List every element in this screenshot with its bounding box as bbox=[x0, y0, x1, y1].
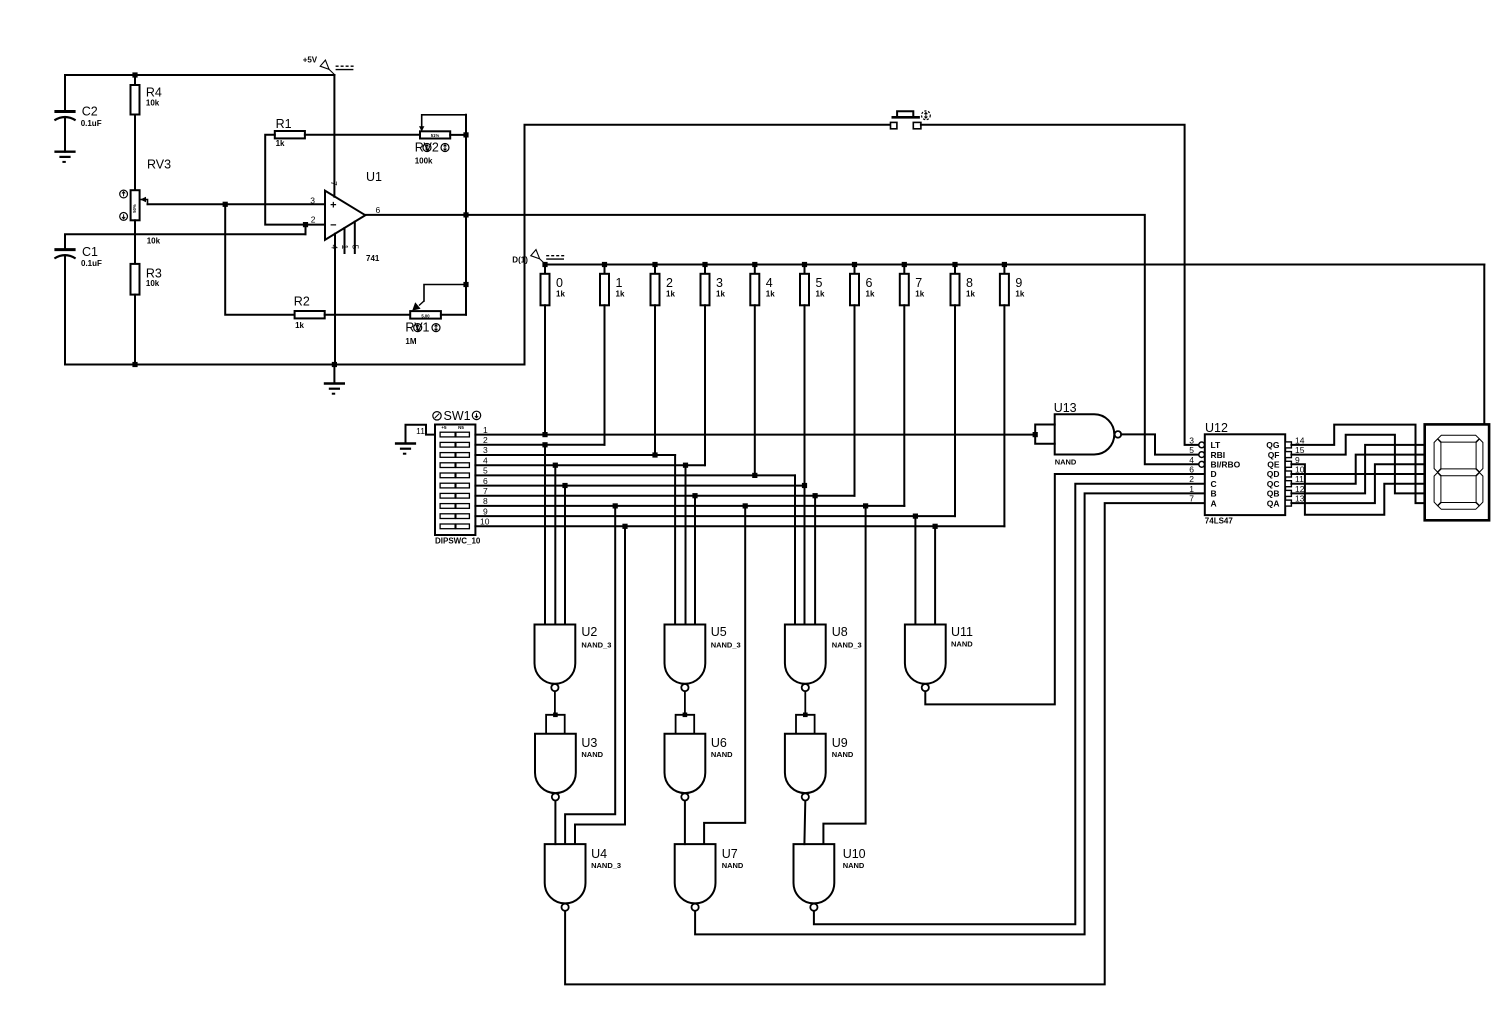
potentiometer RV3 bbox=[120, 158, 171, 246]
svg-text:1k: 1k bbox=[276, 139, 285, 148]
wire RV3 wiper to node bbox=[148, 202, 326, 207]
wire D(1) rail bbox=[542, 262, 1484, 267]
wire QD to display bbox=[1291, 473, 1424, 475]
nand gate U2 bbox=[535, 625, 612, 692]
svg-text:NAND: NAND bbox=[1055, 458, 1077, 467]
wire U6 output to U7 input a bbox=[684, 801, 686, 844]
svg-text:U12: U12 bbox=[1205, 421, 1228, 435]
svg-text:U13: U13 bbox=[1054, 401, 1077, 415]
wire button to LT bbox=[921, 125, 1198, 445]
resistor 7 (1k) bbox=[900, 265, 925, 306]
svg-text:100k: 100k bbox=[415, 156, 433, 165]
svg-text:C2: C2 bbox=[82, 105, 98, 119]
svg-text:QG: QG bbox=[1266, 440, 1280, 450]
wire line 3 to U5 input a bbox=[674, 455, 676, 625]
svg-text:A: A bbox=[1211, 498, 1217, 508]
svg-text:NAND: NAND bbox=[711, 750, 733, 759]
svg-text:U7: U7 bbox=[722, 847, 738, 861]
svg-text:RV3: RV3 bbox=[147, 158, 171, 172]
svg-text:U5: U5 bbox=[711, 625, 727, 639]
wire op-amp output to BI/RBO bbox=[365, 215, 1197, 464]
svg-text:9: 9 bbox=[1015, 276, 1022, 290]
wire resistor 8 to line 9 bbox=[954, 305, 956, 516]
resistor 8 (1k) bbox=[951, 265, 976, 306]
svg-text:2: 2 bbox=[1189, 474, 1194, 484]
svg-text:1k: 1k bbox=[1015, 290, 1024, 299]
wire U3 output to U4 input a bbox=[554, 801, 556, 844]
wire U4 output to 74LS47 A bbox=[565, 503, 1205, 984]
svg-text:2: 2 bbox=[311, 214, 316, 224]
svg-text:1k: 1k bbox=[716, 290, 725, 299]
nand gate U3 bbox=[535, 734, 604, 801]
svg-text:10: 10 bbox=[480, 517, 490, 527]
nand gate U9 bbox=[785, 734, 854, 801]
wire line 2 to U2 input a bbox=[542, 442, 547, 624]
wire resistor 6 to line 7 bbox=[854, 305, 856, 495]
svg-text:−: − bbox=[330, 220, 336, 232]
svg-text:51%: 51% bbox=[431, 133, 440, 138]
svg-text:U3: U3 bbox=[581, 736, 597, 750]
svg-text:0: 0 bbox=[556, 276, 563, 290]
wire op-amp pin 4 to ground rail bbox=[334, 234, 336, 365]
svg-text:10k: 10k bbox=[147, 237, 161, 246]
svg-text:U10: U10 bbox=[843, 847, 866, 861]
wire SW1 pin 1 line bbox=[475, 425, 1035, 435]
svg-text:BI/RBO: BI/RBO bbox=[1211, 460, 1241, 470]
wire +5V top rail bbox=[65, 72, 334, 77]
ground below op-amp bbox=[324, 365, 345, 394]
svg-text:QE: QE bbox=[1267, 460, 1280, 470]
svg-text:NAND: NAND bbox=[581, 750, 603, 759]
svg-text:NAND_3: NAND_3 bbox=[591, 861, 621, 870]
svg-text:0.1uF: 0.1uF bbox=[81, 119, 102, 128]
wire line 4 to U2 input b bbox=[553, 463, 558, 625]
op-amp pin 5 stub bbox=[354, 222, 356, 253]
svg-text:7: 7 bbox=[1189, 494, 1194, 504]
svg-text:5: 5 bbox=[816, 276, 823, 290]
capacitor C1 bbox=[54, 245, 102, 268]
wire C2 to ground bbox=[64, 118, 66, 152]
svg-text:U4: U4 bbox=[591, 847, 607, 861]
svg-text:N5: N5 bbox=[458, 425, 464, 430]
svg-text:74LS47: 74LS47 bbox=[1205, 517, 1234, 526]
svg-text:0.1uF: 0.1uF bbox=[81, 259, 102, 268]
wire U13 output to RBI bbox=[1121, 434, 1197, 454]
resistor R3 bbox=[131, 264, 162, 295]
resistor 3 (1k) bbox=[701, 265, 726, 306]
capacitor C2 bbox=[54, 105, 101, 128]
svg-text:QB: QB bbox=[1267, 489, 1280, 499]
wire RV1 right terminal node bbox=[441, 314, 466, 316]
wire U5 output to U6 bbox=[684, 692, 686, 715]
svg-text:NAND: NAND bbox=[843, 861, 865, 870]
wire line 7 to U8 input c bbox=[813, 493, 818, 624]
wire feedback vertical bbox=[463, 115, 468, 315]
svg-text:LT: LT bbox=[1211, 440, 1222, 450]
wire C1 top branch bbox=[65, 234, 306, 248]
wire SW1 pin 2 line bbox=[475, 435, 604, 445]
svg-text:5.00: 5.00 bbox=[421, 313, 430, 318]
resistor R4 bbox=[131, 75, 162, 190]
svg-text:3: 3 bbox=[1189, 435, 1194, 445]
wire resistor 9 to line 10 bbox=[1003, 305, 1005, 526]
wire SW1 pin 5 line bbox=[475, 466, 795, 476]
resistor 5 (1k) bbox=[800, 265, 825, 306]
svg-text:6: 6 bbox=[376, 205, 381, 215]
wire R2 right to RV1 bbox=[325, 314, 411, 316]
wire QA to display bbox=[1291, 464, 1424, 503]
wire resistor 0 to line 1 bbox=[542, 305, 547, 437]
SW1 pin 11 to ground bbox=[406, 425, 436, 444]
wire node branch to C1 line bbox=[305, 225, 307, 235]
svg-text:D(1): D(1) bbox=[512, 256, 528, 265]
svg-text:11: 11 bbox=[416, 426, 425, 436]
svg-text:3: 3 bbox=[310, 195, 315, 205]
svg-text:1: 1 bbox=[616, 276, 623, 290]
svg-text:B: B bbox=[1211, 489, 1217, 499]
svg-text:3: 3 bbox=[483, 445, 488, 455]
ground at SW1 bbox=[395, 444, 416, 454]
svg-text:1k: 1k bbox=[295, 321, 304, 330]
wire line 6 to U2 input c bbox=[562, 483, 567, 625]
wire U2 output to U3 bbox=[554, 692, 556, 715]
svg-text:1M: 1M bbox=[405, 337, 416, 346]
svg-text:7: 7 bbox=[915, 276, 922, 290]
wire U11 output to 74LS47 D bbox=[925, 474, 1205, 704]
wire U10 output to 74LS47 C bbox=[814, 484, 1205, 925]
wire line 7 to U5 input c bbox=[692, 493, 697, 624]
wire SW1 pin 9 line bbox=[475, 506, 955, 516]
svg-text:DIPSWC_10: DIPSWC_10 bbox=[435, 537, 481, 546]
ground below C2 bbox=[54, 152, 75, 162]
power flag D(1) bbox=[512, 250, 565, 265]
resistor R1 bbox=[275, 117, 305, 148]
svg-text:QD: QD bbox=[1267, 469, 1280, 479]
svg-text:NAND: NAND bbox=[722, 861, 744, 870]
wire line 10 to U11 input b bbox=[933, 524, 938, 625]
wire line 8 to U10 input b bbox=[823, 503, 868, 844]
svg-text:NAND_3: NAND_3 bbox=[711, 641, 741, 650]
resistor 2 (1k) bbox=[651, 265, 676, 306]
wire SW1 pin 6 line bbox=[475, 476, 804, 486]
wire U9 output to U10 input a bbox=[803, 801, 806, 844]
potentiometer RV1 bbox=[405, 285, 466, 346]
wire U3 tied inputs bbox=[546, 713, 565, 734]
svg-text:1k: 1k bbox=[816, 290, 825, 299]
wire line 8 to U7 input b bbox=[704, 503, 748, 844]
IC U12 74LS47 bbox=[1189, 421, 1304, 526]
nand gate U7 bbox=[675, 844, 744, 911]
svg-text:+5V: +5V bbox=[303, 56, 318, 65]
svg-text:50%: 50% bbox=[132, 204, 137, 213]
svg-text:U9: U9 bbox=[832, 736, 848, 750]
wire D(1) rail to display anode bbox=[1483, 265, 1485, 425]
wire U13 tied inputs bbox=[1033, 425, 1055, 444]
op-amp U1 bbox=[310, 170, 382, 263]
svg-text:3: 3 bbox=[716, 276, 723, 290]
svg-text:10k: 10k bbox=[146, 99, 160, 108]
svg-text:C1: C1 bbox=[82, 245, 98, 259]
wire resistor 1 to line 2 bbox=[604, 305, 606, 445]
7-segment display bbox=[1425, 424, 1489, 520]
svg-text:5: 5 bbox=[1189, 445, 1194, 455]
nand gate U11 bbox=[905, 625, 973, 692]
wire QG to display bbox=[1291, 425, 1424, 504]
wire resistor 3 to line 4 bbox=[704, 305, 706, 465]
svg-text:R1: R1 bbox=[276, 117, 292, 131]
nand gate U4 bbox=[545, 844, 621, 911]
svg-text:6: 6 bbox=[483, 476, 488, 486]
svg-text:1: 1 bbox=[483, 425, 488, 435]
resistor 6 (1k) bbox=[850, 265, 875, 306]
wire R3 to bottom rail bbox=[134, 295, 136, 365]
svg-text:1k: 1k bbox=[666, 290, 675, 299]
svg-text:NAND_3: NAND_3 bbox=[832, 641, 862, 650]
svg-text:QF: QF bbox=[1268, 450, 1280, 460]
nand gate U5 bbox=[665, 625, 741, 692]
resistor 1 (1k) bbox=[600, 265, 625, 306]
svg-text:U2: U2 bbox=[581, 625, 597, 639]
wire RV3 wiper node down to R2 bbox=[225, 204, 294, 314]
svg-text:R2: R2 bbox=[294, 295, 310, 309]
svg-text:1k: 1k bbox=[616, 290, 625, 299]
svg-text:NAND: NAND bbox=[832, 750, 854, 759]
svg-text:9: 9 bbox=[483, 506, 488, 516]
power flag +5V bbox=[303, 56, 355, 75]
wire resistor 2 to line 3 bbox=[652, 305, 657, 457]
wire U8 output to U9 bbox=[804, 692, 806, 715]
svg-text:NAND: NAND bbox=[951, 640, 973, 649]
wire QB to display bbox=[1291, 445, 1424, 494]
svg-text:R4: R4 bbox=[146, 86, 162, 100]
svg-text:2: 2 bbox=[666, 276, 673, 290]
DIP switch SW1 bbox=[433, 409, 481, 546]
wire R1 left to inverting input bbox=[265, 135, 325, 228]
wire SW1 pin 8 line bbox=[475, 496, 904, 506]
wire SW1 pin 4 line bbox=[475, 455, 704, 465]
svg-text:8: 8 bbox=[966, 276, 973, 290]
svg-text:1k: 1k bbox=[766, 290, 775, 299]
svg-text:741: 741 bbox=[366, 254, 380, 263]
potentiometer RV2 bbox=[415, 115, 466, 166]
svg-text:4: 4 bbox=[766, 276, 773, 290]
wire SW1 pin 7 line bbox=[475, 486, 854, 496]
svg-text:6: 6 bbox=[866, 276, 873, 290]
wire R1 right to RV2 bbox=[305, 134, 420, 136]
wire RV2 right terminal node bbox=[450, 132, 468, 137]
wire SW1 pin 3 line bbox=[475, 445, 675, 455]
svg-text:U1: U1 bbox=[366, 170, 382, 184]
svg-text:1k: 1k bbox=[866, 290, 875, 299]
svg-text:1k: 1k bbox=[556, 290, 565, 299]
wire C1 to bottom rail bbox=[65, 256, 525, 367]
resistor 4 (1k) bbox=[750, 265, 775, 306]
svg-text:+: + bbox=[330, 200, 336, 212]
wire U7 output to 74LS47 B bbox=[695, 493, 1205, 934]
svg-text:QA: QA bbox=[1267, 498, 1280, 508]
svg-text:U8: U8 bbox=[832, 625, 848, 639]
svg-text:5: 5 bbox=[483, 466, 488, 476]
nand gate U8 bbox=[785, 625, 862, 692]
svg-text:10k: 10k bbox=[146, 279, 160, 288]
wire resistor 4 to line 5 bbox=[752, 305, 757, 478]
wire QE to display bbox=[1291, 464, 1424, 515]
op-amp pin 1 stub bbox=[344, 228, 346, 253]
svg-text:U11: U11 bbox=[951, 625, 973, 639]
wire +5V to op-amp pin 7 bbox=[333, 75, 335, 197]
wire line 4 to U5 input b bbox=[683, 463, 688, 625]
resistor R2 bbox=[294, 295, 325, 330]
svg-text:1k: 1k bbox=[966, 290, 975, 299]
resistor 0 (1k) bbox=[541, 265, 566, 306]
wire resistor 5 to line 6 and U8 input b bbox=[802, 305, 807, 624]
svg-text:C: C bbox=[1211, 479, 1217, 489]
svg-text:NAND_3: NAND_3 bbox=[581, 641, 611, 650]
svg-text:1: 1 bbox=[1189, 484, 1194, 494]
wire QF to display bbox=[1291, 435, 1424, 494]
wire QC to display bbox=[1291, 455, 1424, 484]
svg-text:RBI: RBI bbox=[1211, 450, 1226, 460]
wire U6 tied inputs bbox=[676, 713, 695, 734]
wire U9 tied inputs bbox=[796, 713, 815, 734]
push button bbox=[891, 111, 931, 129]
svg-text:6: 6 bbox=[1189, 465, 1194, 475]
svg-text:7: 7 bbox=[483, 486, 488, 496]
wire left branch C2 bbox=[64, 75, 66, 110]
wire line 9 to U11 input a bbox=[913, 514, 918, 625]
nand gate U6 bbox=[665, 734, 734, 801]
svg-text:QC: QC bbox=[1267, 479, 1280, 489]
svg-text:4: 4 bbox=[1189, 455, 1194, 465]
nand gate U13 bbox=[1054, 401, 1122, 467]
wire RV3 to R3 bbox=[134, 220, 136, 264]
nand gate U10 bbox=[794, 844, 866, 911]
svg-text:8: 8 bbox=[483, 496, 488, 506]
svg-text:2: 2 bbox=[483, 435, 488, 445]
wire line 5 to U8 input a bbox=[794, 475, 796, 624]
wire line 10 to U4 input c bbox=[575, 524, 628, 844]
svg-text:+5: +5 bbox=[441, 425, 447, 430]
wire line 8 to U4 input b bbox=[565, 503, 618, 844]
wire resistor 7 to line 8 bbox=[903, 305, 905, 506]
wire SW1 pin 10 line bbox=[475, 517, 1004, 527]
svg-text:SW1: SW1 bbox=[444, 409, 471, 423]
svg-text:4: 4 bbox=[483, 455, 488, 465]
svg-text:D: D bbox=[1211, 469, 1217, 479]
svg-text:U6: U6 bbox=[711, 736, 727, 750]
svg-text:1k: 1k bbox=[915, 290, 924, 299]
wire ground rail up to button line bbox=[525, 125, 891, 365]
resistor 9 (1k) bbox=[1000, 265, 1025, 306]
